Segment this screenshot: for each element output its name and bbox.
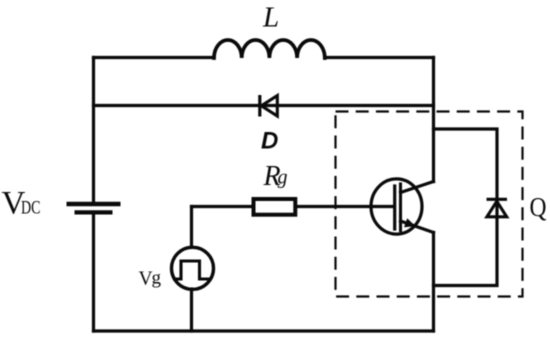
- svg-text:L: L: [262, 2, 279, 34]
- svg-text:D: D: [261, 128, 278, 155]
- svg-text:DC: DC: [21, 198, 41, 219]
- svg-text:g: g: [278, 167, 288, 189]
- svg-text:V: V: [139, 269, 153, 290]
- svg-text:Q: Q: [530, 192, 547, 222]
- svg-text:g: g: [152, 268, 162, 289]
